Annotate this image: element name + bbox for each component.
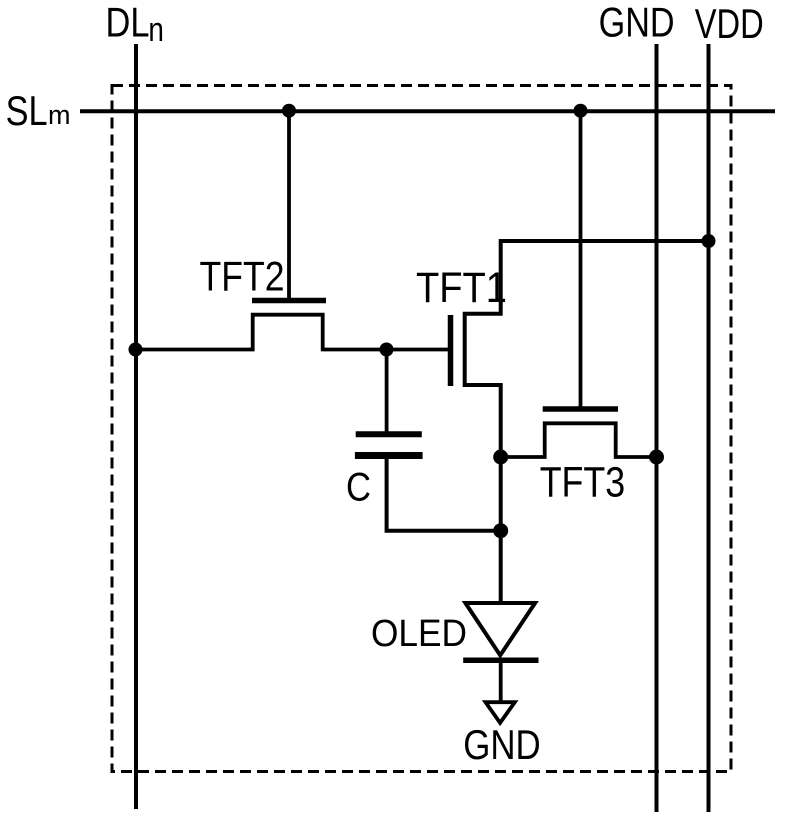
svg-text:TFT2: TFT2: [200, 253, 285, 300]
svg-text:OLED: OLED: [371, 613, 467, 655]
svg-text:m: m: [48, 100, 71, 130]
svg-text:C: C: [346, 466, 371, 510]
svg-text:TFT1: TFT1: [416, 264, 507, 312]
svg-text:n: n: [148, 11, 164, 49]
svg-text:DL: DL: [106, 0, 150, 46]
svg-text:GND: GND: [599, 0, 675, 46]
svg-text:GND: GND: [463, 721, 541, 768]
svg-text:TFT3: TFT3: [540, 459, 626, 507]
svg-text:VDD: VDD: [695, 0, 764, 47]
svg-text:SL: SL: [6, 87, 48, 134]
